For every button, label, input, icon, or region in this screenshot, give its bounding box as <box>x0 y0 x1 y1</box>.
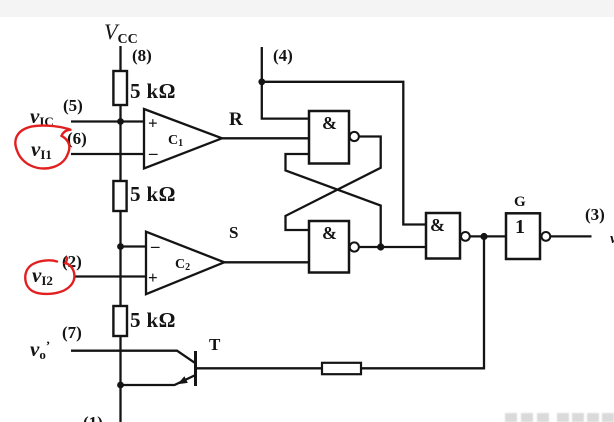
wire node B to C2 minus input <box>121 245 147 247</box>
svg-text:(1): (1) <box>83 413 103 422</box>
output junction dot <box>480 233 487 240</box>
wire C2 output S to bottom NAND <box>224 261 310 263</box>
node A junction dot <box>117 118 124 125</box>
svg-text:5 kΩ: 5 kΩ <box>130 308 176 332</box>
nand gate bottom (S latch) <box>309 221 359 273</box>
svg-text:&: & <box>322 223 337 243</box>
node B junction dot <box>117 243 124 250</box>
red annotation circle around vI1 <box>15 126 70 169</box>
wire pin4 vertical into top NAND input <box>262 47 309 119</box>
svg-text:1: 1 <box>515 216 525 238</box>
svg-text:(4): (4) <box>273 46 293 65</box>
wire R3 to bottom (pin 1) <box>119 336 121 422</box>
wire pin2 vI2 to C2 plus input <box>75 275 146 277</box>
svg-text:+: + <box>148 114 158 133</box>
svg-text:–: – <box>148 144 158 163</box>
svg-text:&: & <box>322 113 337 133</box>
wire pin7 vo' to transistor collector <box>71 351 196 364</box>
transistor T <box>178 351 196 386</box>
svg-text:&: & <box>430 215 445 235</box>
wire pin6 vI1 to C1 minus input <box>71 153 144 155</box>
wire output junction down to transistor base <box>361 238 484 368</box>
resistor R (top 5k) <box>113 71 127 105</box>
svg-text:5 kΩ: 5 kΩ <box>130 182 176 206</box>
svg-text:(5): (5) <box>63 96 83 115</box>
wire right AND output to G gate <box>470 235 506 237</box>
faint watermark bottom right <box>505 413 614 422</box>
wire C1 output R to top NAND <box>221 137 309 139</box>
svg-text:+: + <box>148 268 158 287</box>
nand gate output stage <box>426 213 470 259</box>
top gray band <box>0 0 614 17</box>
svg-text:R: R <box>229 109 243 130</box>
emitter ground junction dot <box>117 382 124 389</box>
wire bottom NAND output to right AND gate input <box>359 246 426 248</box>
red annotation circle around vI2 <box>25 258 74 294</box>
wire transistor emitter to ground rail <box>121 375 196 385</box>
wire pin4 branch to right AND gate <box>262 82 426 225</box>
svg-text:G: G <box>514 194 526 210</box>
wire pin5 vIC to C1 plus input <box>71 120 144 122</box>
svg-text:(7): (7) <box>62 323 82 342</box>
wire top NAND output cross to bottom NAND input <box>286 137 381 231</box>
wire base resistor to transistor <box>197 367 322 369</box>
svg-text:T: T <box>209 335 221 354</box>
svg-text:5 kΩ: 5 kΩ <box>130 79 176 103</box>
resistor bottom 5k <box>113 306 127 336</box>
svg-text:(8): (8) <box>132 46 152 65</box>
op-amp C1 comparator <box>144 109 222 169</box>
wire G output to pin 3 <box>551 235 592 237</box>
latch output junction dot <box>377 243 384 250</box>
pin4 junction dot <box>258 78 265 85</box>
svg-text:v: v <box>610 231 614 247</box>
svg-text:–: – <box>150 237 160 256</box>
op-amp C2 comparator <box>146 232 224 295</box>
resistor middle 5k <box>113 181 126 211</box>
svg-text:S: S <box>229 223 238 242</box>
wire Vcc vertical to R1 <box>119 46 121 71</box>
wire R1 to node A <box>119 105 121 181</box>
nand gate top (R latch) <box>309 111 359 164</box>
wire bottom NAND output cross to top NAND feedback input <box>286 154 381 247</box>
resistor base of transistor <box>322 363 361 374</box>
svg-text:(3): (3) <box>585 205 605 224</box>
inverter gate G <box>506 213 550 259</box>
wire node A region to R2 <box>119 211 121 306</box>
